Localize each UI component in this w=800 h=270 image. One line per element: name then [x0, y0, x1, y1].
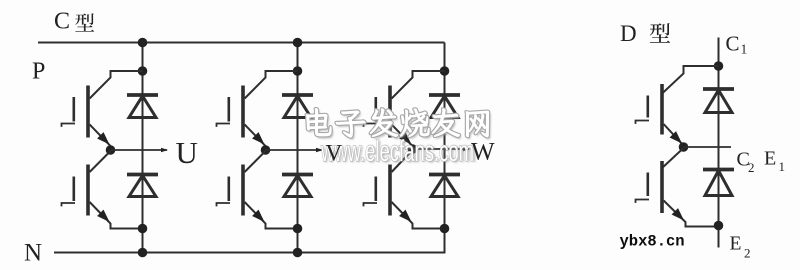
node: D-type midpoint: [679, 142, 689, 152]
node: D-type upper collector junction: [714, 61, 724, 71]
svg-text:C: C: [726, 32, 740, 56]
watermark: www.elecfans.com (shadow): [322, 136, 477, 169]
svg-text:www.elecfans.com: www.elecfans.com: [320, 135, 474, 168]
diode VD32 (lower freewheel diode leg3): [429, 175, 460, 197]
wire: leg3 lower emitter lead: [392, 202, 445, 229]
arrow: leg2 output lead arrowhead: [316, 148, 323, 153]
wire: leg3 diode branch vertical (bus to bus): [444, 43, 446, 253]
transistor VT32 (lower IGBT leg3): [364, 165, 391, 216]
wire: D-type upper collector lead: [662, 66, 718, 94]
wire: D-type lower collector lead: [663, 148, 684, 168]
wire: leg2 upper emitter lead: [245, 125, 266, 151]
wire: leg1 output lead: [111, 149, 168, 151]
svg-text:W: W: [471, 139, 495, 166]
svg-text:2: 2: [748, 160, 755, 175]
diode VD11 (upper freewheel diode leg1): [127, 95, 158, 118]
transistor VT31 (upper IGBT leg3): [364, 86, 391, 138]
terminal label C2 E1: [737, 148, 786, 176]
wire: leg3 output lead: [413, 148, 470, 150]
wire: leg3 upper emitter lead: [392, 125, 413, 150]
node: leg1 midpoint (output node): [106, 145, 116, 155]
wire: leg1 upper collector lead: [90, 71, 143, 99]
terminal label E2: [730, 234, 751, 261]
diode VD21 (upper freewheel diode leg2): [282, 95, 313, 118]
transistor VT12 (lower IGBT leg1): [62, 165, 89, 216]
diode VD12 (lower freewheel diode leg1): [127, 175, 158, 197]
wire: leg1 upper emitter lead: [90, 125, 111, 151]
wire: D-type lower emitter lead: [664, 201, 719, 227]
watermark: www.elecfans.com: [320, 135, 474, 168]
watermark: ybx8.cn: [620, 233, 685, 251]
svg-text:ybx8.cn: ybx8.cn: [620, 233, 685, 251]
node: leg1 bottom rail junction: [138, 248, 148, 258]
svg-text:1: 1: [741, 42, 748, 57]
terminal label C1: [726, 32, 748, 57]
svg-text:N: N: [24, 240, 42, 267]
P bus label: [32, 59, 45, 85]
terminal label W: [471, 139, 495, 166]
node: leg2 lower emitter junction: [293, 224, 303, 234]
arrow: VT22 emitter arrowhead: [252, 210, 264, 222]
node: leg1 upper collector junction: [138, 66, 148, 76]
node: D-type lower emitter junction: [714, 221, 724, 231]
transistor VT21 (upper IGBT leg2): [217, 86, 244, 138]
node: leg3 midpoint (output node): [408, 144, 418, 154]
svg-text:D: D: [620, 21, 637, 46]
arrow: VT1 emitter arrowhead: [670, 131, 682, 143]
wire: leg2 lower collector lead: [245, 151, 266, 172]
svg-text:V: V: [326, 141, 343, 166]
title D-type: D: [620, 21, 637, 46]
wire: leg2 upper collector lead: [245, 71, 298, 99]
svg-text:P: P: [32, 59, 45, 85]
node: leg2 bottom rail junction: [293, 248, 303, 258]
svg-text:C: C: [54, 9, 70, 35]
transistor VT2 (lower IGBT D-type): [636, 161, 663, 213]
title D-type: 型: [650, 23, 670, 43]
diode VD1 (upper diode D-type): [703, 89, 734, 113]
svg-text:1: 1: [779, 159, 786, 174]
transistor VT1 (upper IGBT D-type): [636, 84, 663, 135]
transistor VT11 (upper IGBT leg1): [62, 86, 89, 138]
node: leg1 lower emitter junction: [138, 224, 148, 234]
svg-text:E: E: [730, 234, 742, 255]
wire: D-type midpoint output lead: [684, 146, 732, 148]
diode VD2 (lower diode D-type): [703, 170, 734, 196]
wire: leg1 diode branch vertical (bus to bus): [142, 43, 144, 253]
transistor VT22 (lower IGBT leg2): [217, 165, 244, 216]
arrow: leg1 output lead arrowhead: [161, 148, 168, 153]
arrow: VT2 emitter arrowhead: [672, 208, 684, 220]
diode VD31 (upper freewheel diode leg3): [429, 95, 460, 118]
watermark: 电子发烧友网: [306, 109, 489, 138]
svg-text:2: 2: [744, 246, 751, 261]
wire: D-type main vertical branch: [718, 38, 720, 248]
wire: leg1 lower collector lead: [90, 151, 111, 172]
wire: leg2 output lead: [266, 149, 323, 151]
node: leg1 top rail junction: [138, 38, 148, 48]
watermark: 电子发烧友网 halo: [306, 109, 489, 138]
wire: leg3 upper collector lead: [392, 71, 445, 99]
terminal label U: [176, 135, 198, 170]
arrow: VT11 emitter arrowhead: [97, 132, 109, 144]
N bus label: [24, 240, 42, 267]
arrow: VT31 emitter arrowhead: [399, 132, 411, 144]
wire: leg3 lower collector lead: [392, 150, 413, 172]
svg-text:U: U: [176, 135, 198, 170]
title C-type: 型: [75, 13, 94, 31]
svg-text:E: E: [764, 148, 776, 170]
wire: leg2 diode branch vertical (bus to bus): [297, 43, 299, 253]
node: leg2 upper collector junction: [293, 66, 303, 76]
wire: P rail (top bus): [38, 42, 445, 44]
arrow: VT12 emitter arrowhead: [97, 210, 109, 222]
arrow: VT21 emitter arrowhead: [252, 132, 264, 144]
wire: leg2 lower emitter lead: [245, 202, 298, 229]
arrow: VT32 emitter arrowhead: [399, 210, 411, 222]
node: leg3 upper collector junction: [440, 66, 450, 76]
wire: N rail (bottom bus): [54, 252, 446, 254]
title C-type: C: [54, 9, 70, 35]
terminal label V: [326, 141, 343, 166]
node: leg2 midpoint (output node): [261, 145, 271, 155]
wire: leg1 lower emitter lead: [90, 202, 143, 229]
watermark: 电子发烧友网 (shadow): [308, 111, 491, 140]
diode VD22 (lower freewheel diode leg2): [282, 175, 313, 197]
node: leg3 lower emitter junction: [440, 224, 450, 234]
wire: D-type upper emitter lead: [664, 124, 684, 147]
arrow: leg3 output lead arrowhead: [463, 147, 470, 152]
node: leg2 top rail junction: [293, 38, 303, 48]
